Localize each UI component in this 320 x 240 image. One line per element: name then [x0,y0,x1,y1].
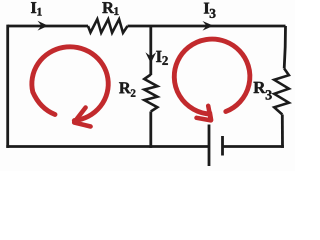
wire bottom-left segment [6,145,209,148]
label R2 [119,82,135,96]
resistor R3 [274,69,289,115]
wire left side [6,25,9,148]
battery V1 short plate [221,136,224,156]
label I3 [204,3,216,18]
current arrow I1 [38,21,49,31]
wire top-left segment [8,25,88,28]
wire right side top [284,26,285,69]
resistor R2 [144,75,157,112]
current arrow I3 [203,21,214,31]
label I1 [31,2,42,15]
wire right side bottom [281,115,284,148]
resistor R1 [88,19,128,33]
mesh current loop 1 [32,47,108,127]
wire bottom-right segment [223,145,284,148]
label R1 [102,2,118,15]
label I2 [156,51,168,65]
wire middle branch top [149,26,152,75]
battery V1 long plate [208,125,211,167]
wire top-middle segment [128,25,286,28]
label R3 [254,82,272,100]
current arrow I2 [145,52,156,63]
mesh current loop 2 [174,39,250,120]
wire middle branch bottom [149,112,152,148]
